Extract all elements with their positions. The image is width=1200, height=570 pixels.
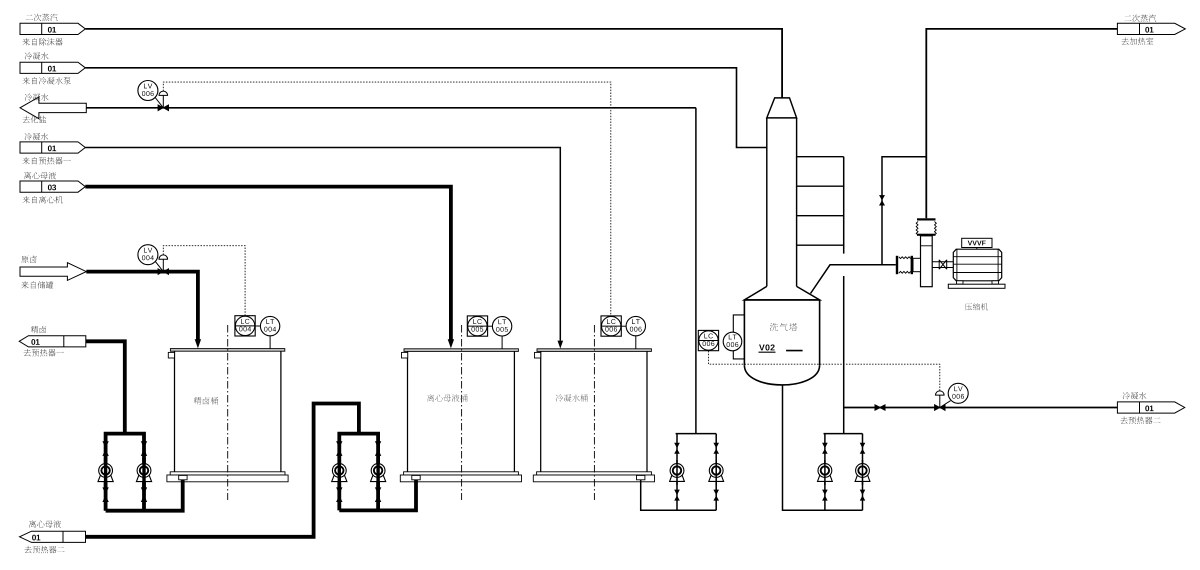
instrument LC005: [467, 316, 487, 336]
tank3 lid: [537, 349, 651, 352]
tank2 walls: [408, 351, 515, 471]
tank1 lid: [170, 349, 284, 352]
signal: LC006(tower) to LV006 condensate valve (dashed): [709, 351, 940, 391]
flag: condensate from preheater-1 (incoming): [20, 142, 85, 153]
label text 冷凝水: [25, 93, 49, 100]
instrument LT005: [488, 317, 512, 349]
tank1 rim band: [170, 472, 285, 475]
label text LT: [729, 335, 737, 340]
tank2 outlet nozzle: [412, 475, 420, 479]
label text LV: [954, 386, 962, 391]
label text 006: [952, 394, 964, 399]
instrument LC004 (shared display): [235, 316, 255, 336]
label text LC: [241, 319, 249, 324]
control valve LV006 on salt line: [155, 91, 168, 111]
pump P1A: [98, 441, 113, 502]
arrow: condensate to salt-dissolving (big outgoing arrow): [20, 97, 86, 119]
compressor top bellows: [917, 218, 936, 220]
label text 004: [264, 327, 276, 332]
motor feet: [957, 281, 964, 284]
pump P4A: [818, 443, 833, 501]
flag: secondary steam from demister (incoming): [20, 23, 85, 34]
compressor left bellows: [896, 256, 898, 274]
wire: raw brine from storage tank into tank1 (thick): [86, 272, 198, 340]
compressor inlet stub: [913, 258, 921, 271]
tank2 base plate: [400, 475, 521, 482]
tank3 base plate: [533, 475, 654, 482]
label text 005: [471, 327, 483, 332]
label text 冷凝水桶: [556, 394, 588, 402]
wire: tower spray ladder rungs: [797, 157, 844, 246]
label text 005: [496, 327, 508, 332]
tower top cone: [767, 98, 797, 118]
flag: refined brine to preheater-1 (outgoing left): [19, 336, 86, 347]
label text 去预热器二: [24, 546, 64, 553]
tank3 centerline: [593, 325, 595, 500]
label text 01: [1145, 27, 1153, 33]
wire: compressor suction from tower shoulder: [811, 265, 896, 294]
instrument LT006 (tank3): [621, 316, 645, 348]
pump P1B: [136, 441, 151, 502]
wire: tank2 suction piping (thick): [337, 434, 416, 511]
label text 去化盐: [22, 116, 46, 123]
tower frustum transition: [744, 286, 819, 300]
label text 来自除沫器: [22, 38, 62, 45]
instrument LC006 (tower): [698, 330, 718, 350]
label text 006: [703, 341, 715, 346]
pump P2B: [371, 441, 386, 502]
wire: condensate from condensate pump down to tower left inlet: [85, 68, 767, 148]
label text 03: [48, 185, 56, 191]
tank2 lid: [404, 349, 518, 352]
instrument LT006 (tower): [723, 332, 742, 351]
tank3 outlet nozzle: [637, 475, 645, 479]
label text 原卤: [21, 256, 36, 263]
tank1 base plate: [167, 475, 288, 482]
pump P3A: [670, 443, 685, 501]
label V02: [759, 351, 803, 353]
label text 01: [31, 339, 39, 345]
valve: bypass manual valve: [879, 195, 885, 205]
label text 来自离心机: [22, 196, 62, 203]
tank1 refined brine barrel: [167, 325, 288, 500]
label text LC: [607, 319, 615, 324]
wire: compressor discharge to heating chamber flag: [926, 29, 1117, 218]
tower vessel top seam: [744, 299, 819, 301]
label text 01: [32, 535, 40, 541]
label text 006: [142, 91, 154, 96]
instrument LT006 bracket on tower: [733, 315, 744, 359]
label text 离心母液桶: [427, 394, 468, 402]
VVVF box: [962, 238, 992, 247]
label text 去预热器一: [24, 349, 64, 356]
compressor unit: [896, 218, 1005, 288]
wire: tank3 pump riser up to salt line: [695, 108, 697, 434]
flag: mother liquor from centrifuge (incoming): [20, 181, 85, 192]
tank3 side nozzle: [535, 352, 541, 358]
wire: tank2 pump discharge to bottom-left flag (thick): [86, 404, 359, 537]
shaft and coupling: [932, 262, 953, 268]
flag: secondary steam to heating chamber (outgoing right): [1117, 23, 1185, 34]
tank3 rim band: [537, 472, 652, 475]
flag: condensate to preheater-2 (outgoing right): [1117, 402, 1184, 413]
wire: refined brine from tank1 pumps out to preheater-1 (thick): [86, 341, 125, 433]
tank1 outlet nozzle: [179, 475, 187, 479]
label text LT: [266, 319, 274, 324]
label text 来自储罐: [21, 281, 53, 288]
arrow: raw brine from storage (big incoming arrow): [20, 263, 86, 281]
arrow: inlet arrowhead into tank2: [448, 339, 454, 348]
tower vessel shell: [744, 300, 819, 365]
tower V02: scrub column: [744, 98, 819, 385]
tank2 side nozzle: [402, 352, 408, 358]
label text V02: [759, 344, 775, 350]
label text 二次蒸汽: [26, 14, 58, 21]
label text 004: [239, 327, 251, 332]
label text LC: [704, 334, 712, 339]
arrow: inlet arrowhead into tank3: [558, 341, 564, 349]
instrument LC006 (tank3): [601, 316, 621, 336]
label text 01: [1145, 405, 1153, 411]
label text LT: [632, 319, 640, 324]
pump P3B: [709, 443, 724, 501]
instrument bubble LV006 (right): [948, 383, 968, 403]
tower column walls: [767, 118, 797, 287]
label text LC: [473, 319, 481, 324]
instrument LT004: [255, 316, 280, 348]
label text 来自冷凝水泵: [22, 77, 70, 84]
label text LT: [498, 319, 506, 324]
flag: mother liquor to preheater-2 (outgoing left, bottom): [20, 531, 86, 542]
wire: condensate from preheater-1 into tank3: [85, 148, 560, 341]
label text 压缩机: [965, 303, 988, 310]
label text 01: [48, 66, 56, 72]
label text 006: [630, 327, 642, 332]
control valve LV004 on raw brine line: [155, 255, 168, 275]
tank3 condensate barrel: [533, 325, 654, 500]
label text 006: [605, 327, 617, 332]
label text 冷凝水: [25, 52, 49, 59]
tank2 rim band: [404, 472, 519, 475]
instrument bubble LV006 (left): [138, 81, 158, 101]
flag: condensate from condensate pump (incoming): [20, 62, 85, 73]
label text 01: [48, 145, 56, 151]
label text 004: [142, 255, 154, 260]
arrow: inlet arrowhead into tank1: [195, 339, 201, 348]
wire: tank3 suction piping (thin): [641, 434, 717, 511]
control valve LV006 on condensate outlet line: [935, 391, 951, 411]
wire: tank1 suction piping (thick): [104, 434, 183, 511]
compressor casing: [921, 236, 933, 287]
pump P4B: [855, 443, 870, 501]
label text LV: [144, 84, 152, 89]
wire: tower recirculation riser (upper segment to ladder): [843, 157, 845, 434]
tank1 centerline: [227, 325, 229, 500]
wire: condensate to salt-dissolving (from tank3 pump riser): [86, 107, 696, 109]
tank2 centerline: [461, 325, 463, 500]
manual valve on condensate outlet line: [875, 405, 885, 410]
pump P2A: [332, 441, 347, 502]
signal: LC004 to LV004 (dashed): [163, 246, 245, 316]
wire: tower bottom outlet to pumps: [783, 385, 863, 510]
wire: centrifugal mother liquor from centrifuge into tank2 (thick): [85, 187, 451, 340]
tank2 mother liquor barrel: [400, 325, 521, 500]
motor: [953, 249, 1001, 281]
motor base plate: [948, 284, 1005, 288]
signal: LC006(tank3) to LV006 salt-line valve (dashed): [163, 82, 611, 316]
label text 离心母液: [24, 172, 56, 179]
tank1 walls: [175, 351, 281, 472]
label text 去加热室: [1121, 38, 1153, 45]
instrument bubble LV004: [138, 245, 158, 265]
label text 精卤桶: [194, 397, 219, 405]
label text 冷凝水: [24, 133, 48, 140]
tank1 side nozzle: [168, 352, 174, 358]
label text 006: [727, 342, 739, 347]
label text 精卤: [31, 326, 46, 333]
label text LV: [144, 248, 152, 253]
label text 离心母液: [29, 520, 61, 527]
label text 冷凝水: [1123, 392, 1147, 399]
tower bottom dome: [744, 365, 819, 385]
label text 二次蒸汽: [1124, 14, 1156, 21]
label text 来自预热器一: [22, 157, 70, 164]
label text 洗气塔: [770, 323, 798, 331]
label text 01: [48, 27, 56, 33]
tank3 walls: [541, 351, 647, 471]
label text 去预热器二: [1120, 417, 1160, 424]
label text VVVF: [968, 241, 986, 246]
wire: tower condensate outlet to preheater-2 flag: [844, 407, 1118, 409]
wire: compressor bypass line with valve: [882, 157, 926, 265]
wire: secondary steam from demister to tower top: [85, 29, 782, 98]
